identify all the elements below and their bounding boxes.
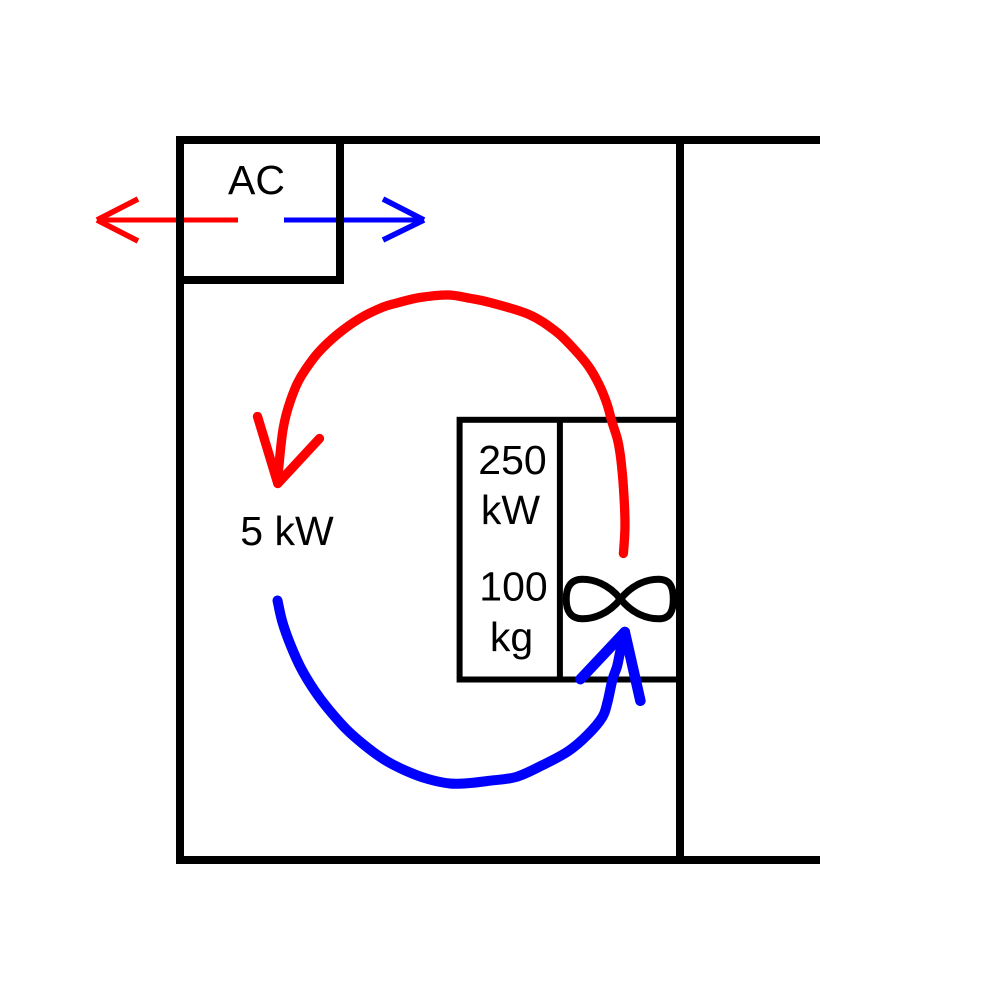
svg-text:5 kW: 5 kW (240, 508, 334, 554)
svg-text:kW: kW (481, 487, 541, 533)
svg-text:100: 100 (479, 564, 547, 610)
svg-text:AC: AC (228, 157, 285, 203)
svg-text:kg: kg (490, 614, 533, 660)
svg-text:250: 250 (478, 437, 546, 483)
